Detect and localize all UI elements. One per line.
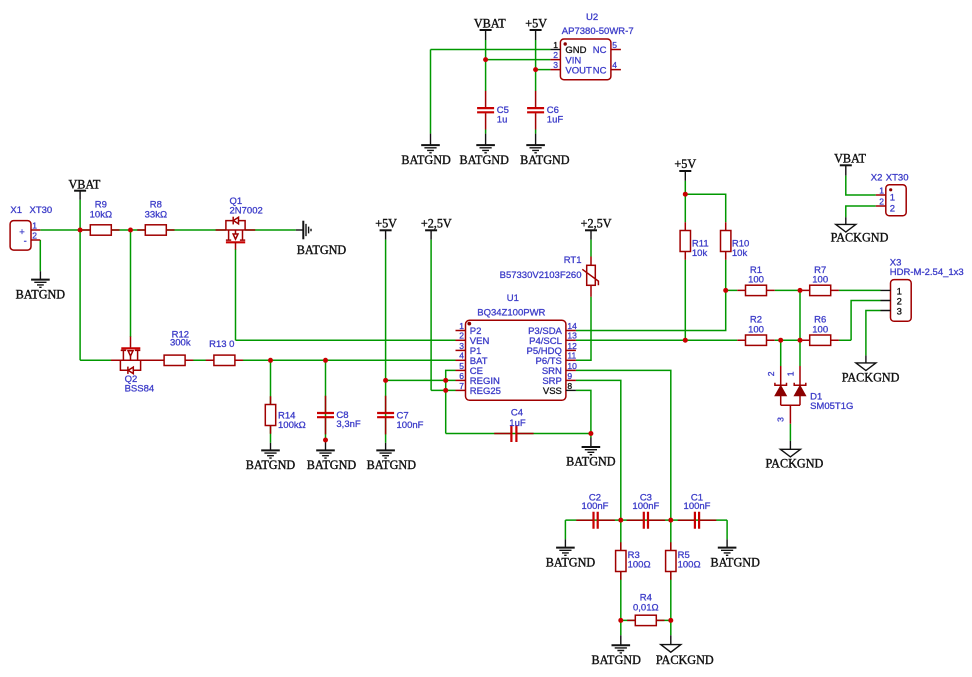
ground PACKGND (R4) xyxy=(656,635,714,667)
power VBAT left xyxy=(68,177,100,200)
junction node R1/R7/D1-1 xyxy=(798,288,803,293)
svg-text:2: 2 xyxy=(459,331,464,341)
svg-text:+5V: +5V xyxy=(674,157,696,171)
svg-text:1: 1 xyxy=(32,220,37,230)
junction node R3/R4 xyxy=(618,618,623,623)
svg-text:3: 3 xyxy=(459,341,464,351)
capacitor C7 100nF xyxy=(377,396,424,435)
resistor R7 100 xyxy=(802,265,839,296)
wire C7 column xyxy=(385,380,387,442)
wire VEN row xyxy=(236,339,456,341)
node VBAT column down xyxy=(79,230,81,360)
power +5V right xyxy=(674,157,696,181)
wire C8 column xyxy=(325,360,327,440)
wire R3 column xyxy=(620,520,622,620)
svg-text:100: 100 xyxy=(812,324,828,335)
wire VIN row xyxy=(486,59,551,61)
svg-text:8: 8 xyxy=(567,381,572,391)
wire C1 right to ground xyxy=(726,520,728,539)
svg-text:BATGND: BATGND xyxy=(710,555,760,569)
connector X3 HDR-M-2.54_1x3 xyxy=(881,257,964,321)
resistor R13 0 xyxy=(206,339,243,366)
svg-text:100: 100 xyxy=(812,275,828,286)
wire +2,5V right column xyxy=(590,240,592,257)
svg-text:PACKGND: PACKGND xyxy=(766,457,824,471)
ground PACKGND (D1) xyxy=(766,441,824,471)
junction node VBAT/VIN xyxy=(483,57,488,62)
svg-text:10k: 10k xyxy=(692,248,708,259)
svg-text:0,01Ω: 0,01Ω xyxy=(633,602,659,613)
ground BATGND (C1) xyxy=(710,539,760,569)
svg-text:4: 4 xyxy=(612,60,617,70)
wire X1 pin1 row xyxy=(40,229,226,231)
wire +5V to R10 xyxy=(685,194,725,222)
wire +2,5V mid column xyxy=(430,240,432,391)
wire C4 right to ground xyxy=(590,434,592,438)
junction node R2/D1-2 xyxy=(778,338,783,343)
svg-text:VBAT: VBAT xyxy=(834,152,866,166)
capacitor C1 100nF xyxy=(678,493,717,529)
wire VBAT left column xyxy=(79,200,81,230)
svg-text:1u: 1u xyxy=(497,114,508,125)
ground BATGND (C6) xyxy=(520,134,570,167)
svg-text:3: 3 xyxy=(897,307,902,318)
resistor R10 10k xyxy=(721,222,750,259)
junction node R2/R6/D1-1 xyxy=(798,338,803,343)
svg-text:U2: U2 xyxy=(586,12,598,23)
svg-text:10: 10 xyxy=(567,361,577,371)
svg-text:XT30: XT30 xyxy=(886,173,909,184)
transistor Q1 2N7002 xyxy=(216,196,263,250)
svg-text:BATGND: BATGND xyxy=(246,458,296,472)
wire R6 to X3 pin2 xyxy=(851,301,880,341)
svg-text:2N7002: 2N7002 xyxy=(230,205,263,216)
svg-text:1: 1 xyxy=(553,40,558,50)
svg-text:BATGND: BATGND xyxy=(520,153,570,167)
wire R10 bottom xyxy=(725,260,727,291)
resistor R14 100k xyxy=(265,396,305,433)
wire VBAT right to X2 pin1 xyxy=(846,176,876,195)
svg-text:3: 3 xyxy=(553,60,558,70)
svg-text:BATGND: BATGND xyxy=(297,243,347,257)
ground BATGND (R4) xyxy=(591,635,641,667)
wire C2-C1 row xyxy=(565,519,727,521)
svg-text:C4: C4 xyxy=(511,408,523,419)
capacitor C3 100nF xyxy=(627,493,666,529)
svg-text:100nF: 100nF xyxy=(684,501,711,512)
resistor R5 100 xyxy=(666,542,701,579)
svg-text:2: 2 xyxy=(553,50,558,60)
svg-text:VBAT: VBAT xyxy=(68,177,100,191)
junction node +5V/R11/R10 xyxy=(683,192,688,197)
svg-text:PACKGND: PACKGND xyxy=(656,653,714,667)
thermistor RT1 B57330V2103F260 xyxy=(500,255,599,297)
junction node CE/REG25 xyxy=(443,388,448,393)
wire R1 row xyxy=(726,289,881,291)
svg-text:REG25: REG25 xyxy=(470,386,501,397)
svg-text:PACKGND: PACKGND xyxy=(831,231,889,245)
svg-text:VBAT: VBAT xyxy=(474,17,506,31)
svg-text:+5V: +5V xyxy=(525,17,547,31)
ground PACKGND (X2) xyxy=(831,217,889,244)
svg-text:100: 100 xyxy=(748,324,764,335)
svg-text:SM05T1G: SM05T1G xyxy=(810,401,853,412)
junction node C4/VSS xyxy=(588,431,593,436)
svg-text:BATGND: BATGND xyxy=(307,458,357,472)
resistor R8 33k xyxy=(137,200,174,236)
ground BATGND (R14) xyxy=(246,443,296,472)
resistor R2 100 xyxy=(737,315,774,346)
wire +5V right stem xyxy=(684,181,686,194)
svg-text:11: 11 xyxy=(567,351,576,361)
wire +5V mid column xyxy=(385,240,387,381)
svg-text:BATGND: BATGND xyxy=(367,458,417,472)
svg-text:1uF: 1uF xyxy=(509,418,526,429)
wire VOUT row xyxy=(536,69,551,71)
ground BATGND (C8) xyxy=(307,442,357,472)
wire D1 column 2 xyxy=(780,340,782,366)
junction node X1/VBAT xyxy=(78,228,83,233)
wire P6/TS to RT1 xyxy=(576,297,591,361)
capacitor C6 1uF xyxy=(527,91,563,130)
svg-text:AP7380-50WR-7: AP7380-50WR-7 xyxy=(562,26,634,37)
wire P4/SCL row xyxy=(576,339,851,341)
wire R11 top xyxy=(684,194,686,222)
junction node CE/REGIN xyxy=(443,378,448,383)
svg-text:+2,5V: +2,5V xyxy=(581,216,612,230)
svg-text:9: 9 xyxy=(567,371,572,381)
wire +5V top column to C6 xyxy=(535,40,537,91)
svg-text:X1: X1 xyxy=(10,205,22,216)
power VBAT right xyxy=(834,152,866,176)
wire VBAT column to C5 xyxy=(485,40,487,91)
svg-text:7: 7 xyxy=(459,381,464,391)
ground BATGND (C7) xyxy=(367,443,417,472)
connector X1 XT30 xyxy=(10,205,52,250)
wire SRP down xyxy=(576,380,621,520)
svg-text:+5V: +5V xyxy=(375,216,397,230)
wire R5 column xyxy=(670,520,672,620)
svg-text:1: 1 xyxy=(459,321,464,331)
svg-text:2: 2 xyxy=(879,196,884,206)
capacitor C4 1uF xyxy=(494,408,533,442)
svg-text:BATGND: BATGND xyxy=(566,455,616,469)
wire VSS to C4 xyxy=(576,390,591,433)
svg-text:100nF: 100nF xyxy=(632,501,659,512)
svg-text:BATGND: BATGND xyxy=(459,153,509,167)
junction node R5/R4 xyxy=(668,618,673,623)
power +2,5V mid xyxy=(421,216,452,239)
wire C5 to ground xyxy=(485,130,487,134)
svg-text:10k: 10k xyxy=(732,248,748,259)
wire CE to C4 column xyxy=(446,370,456,433)
power +5V (U2) xyxy=(525,17,547,40)
svg-text:VOUT: VOUT xyxy=(565,65,592,76)
junction node R11/SCL xyxy=(683,338,688,343)
svg-text:B57330V2103F260: B57330V2103F260 xyxy=(500,270,582,281)
svg-text:33kΩ: 33kΩ xyxy=(145,210,167,221)
wire REGIN row xyxy=(386,379,456,381)
svg-text:300k: 300k xyxy=(170,338,191,349)
svg-text:14: 14 xyxy=(567,321,577,331)
junction node C8 ground xyxy=(323,438,328,443)
svg-text:BSS84: BSS84 xyxy=(125,384,155,395)
ground BATGND (C2) xyxy=(546,539,596,569)
wire R4 right to PACKGND xyxy=(670,620,672,635)
svg-text:RT1: RT1 xyxy=(564,255,582,266)
svg-text:4: 4 xyxy=(459,351,464,361)
transistor Q2 BSS84 xyxy=(111,337,157,395)
resistor R1 100 xyxy=(737,265,774,296)
junction node C2/C3/R3 xyxy=(618,518,623,523)
svg-text:13: 13 xyxy=(567,331,577,341)
svg-text:10kΩ: 10kΩ xyxy=(90,210,112,221)
wire Q1 source to ground xyxy=(245,229,296,231)
capacitor C2 100nF xyxy=(576,493,615,529)
svg-text:NC: NC xyxy=(593,65,607,76)
ground PACKGND (X3) xyxy=(842,355,900,384)
junction node BAT/R14 xyxy=(268,358,273,363)
svg-text:100Ω: 100Ω xyxy=(678,559,701,570)
svg-text:5: 5 xyxy=(459,361,464,371)
wire P3/SDA row xyxy=(576,290,726,330)
svg-text:100Ω: 100Ω xyxy=(628,559,651,570)
capacitor C8 3,3nF xyxy=(317,396,361,435)
svg-text:1uF: 1uF xyxy=(547,114,564,125)
svg-text:5: 5 xyxy=(612,40,617,50)
resistor R6 100 xyxy=(802,315,839,346)
power +2,5V right xyxy=(581,216,612,239)
capacitor C5 1u xyxy=(477,91,509,130)
junction node BAT/C8 xyxy=(323,358,328,363)
svg-text:3,3nF: 3,3nF xyxy=(336,419,360,430)
wire C2 left to ground xyxy=(564,520,566,539)
svg-text:12: 12 xyxy=(567,341,577,351)
diode D1 SM05T1G xyxy=(766,366,853,424)
svg-text:100nF: 100nF xyxy=(582,501,609,512)
resistor R11 10k xyxy=(680,222,709,259)
svg-text:1: 1 xyxy=(879,185,884,195)
svg-text:XT30: XT30 xyxy=(30,205,53,216)
wire R9-R8 junction column to Q2 gate xyxy=(130,230,132,337)
wire REG25 row xyxy=(431,389,455,391)
svg-text:R13 0: R13 0 xyxy=(209,339,234,350)
resistor R3 100 xyxy=(616,542,651,579)
wire D1 column 1 xyxy=(799,290,801,366)
wire C4 row xyxy=(446,433,591,435)
wire R11 bottom xyxy=(684,260,686,341)
power +5V mid xyxy=(375,216,397,239)
wire X3 pin3 to PACKGND xyxy=(866,311,881,356)
wire Q1 gate down xyxy=(235,249,237,340)
wire U2 GND net xyxy=(431,49,551,51)
svg-text:2: 2 xyxy=(890,204,895,215)
svg-text:BQ34Z100PWR: BQ34Z100PWR xyxy=(477,307,545,318)
resistor R9 10k xyxy=(82,200,119,236)
svg-text:+2,5V: +2,5V xyxy=(421,216,452,230)
junction node R10/R1/SDA xyxy=(723,288,728,293)
ground BATGND (U2 left) xyxy=(401,134,451,167)
svg-text:VSS: VSS xyxy=(543,386,562,397)
svg-text:100: 100 xyxy=(748,275,764,286)
svg-text:U1: U1 xyxy=(507,293,519,304)
connector X2 XT30 xyxy=(871,173,909,216)
op-amp U2 AP7380-50WR-7 xyxy=(550,12,633,80)
junction node R9/R8/Q2-gate xyxy=(128,228,133,233)
wire R14 column xyxy=(270,360,272,443)
svg-text:1: 1 xyxy=(785,371,795,376)
svg-text:HDR-M-2.54_1x3: HDR-M-2.54_1x3 xyxy=(890,267,964,278)
svg-text:100kΩ: 100kΩ xyxy=(278,420,306,431)
svg-text:BATGND: BATGND xyxy=(591,653,641,667)
svg-text:NC: NC xyxy=(593,45,607,56)
wire U2 GND to ground xyxy=(430,50,432,134)
resistor R12 300k xyxy=(156,330,193,366)
wire R4 left to ground xyxy=(620,620,622,635)
junction node +5V/VOUT xyxy=(533,67,538,72)
resistor R4 0,01 xyxy=(627,592,664,625)
svg-text:2: 2 xyxy=(32,230,37,240)
power VBAT (U2) xyxy=(474,17,506,40)
junction node C3/C1/R5 xyxy=(668,518,673,523)
wire R4 row xyxy=(621,619,671,621)
op-amp U1 BQ34Z100PWR xyxy=(456,293,578,400)
wire X1 pin2 down xyxy=(39,240,41,271)
wire X2 pin2 to PACKGND xyxy=(846,206,876,217)
ground BATGND (rotated, right of Q1) xyxy=(296,221,347,257)
svg-text:3: 3 xyxy=(776,417,786,422)
junction node +5V/REGIN xyxy=(383,378,388,383)
svg-text:6: 6 xyxy=(459,371,464,381)
svg-text:BATGND: BATGND xyxy=(16,287,66,301)
svg-text:X2: X2 xyxy=(871,173,883,184)
wire D1 pin3 to PACKGND xyxy=(789,424,791,441)
svg-text:BATGND: BATGND xyxy=(546,555,596,569)
ground BATGND (C5) xyxy=(459,134,509,167)
ground BATGND (C4) xyxy=(566,438,616,469)
wire C6 to ground xyxy=(535,130,537,134)
svg-text:-: - xyxy=(24,236,27,247)
svg-text:1: 1 xyxy=(890,193,895,204)
svg-text:BATGND: BATGND xyxy=(401,153,451,167)
wire VBAT row to Q2 xyxy=(80,359,120,361)
wire BAT row xyxy=(141,359,456,361)
svg-text:100nF: 100nF xyxy=(397,420,424,431)
svg-text:2: 2 xyxy=(766,371,776,376)
wire SRN down xyxy=(576,370,671,520)
ground BATGND (X1) xyxy=(16,271,66,301)
svg-text:PACKGND: PACKGND xyxy=(842,370,900,384)
